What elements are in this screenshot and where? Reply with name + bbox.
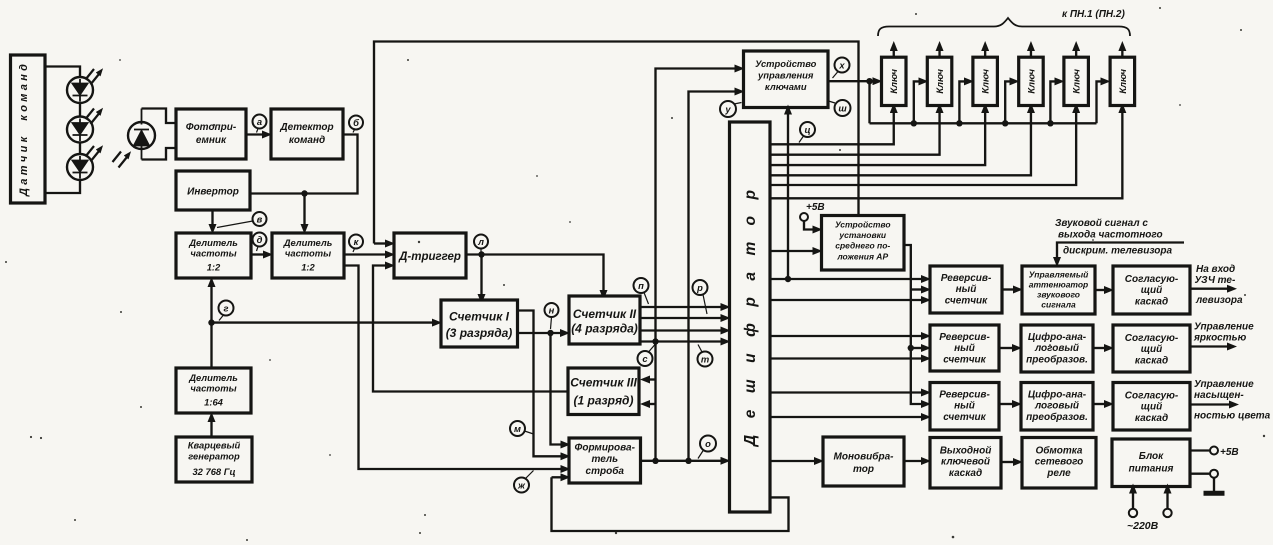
junction dot n — [547, 330, 553, 336]
wire AR column stub to counter2 middle — [911, 347, 922, 349]
wire m: counter I second output to strobe former input2 — [518, 311, 562, 457]
svg-text:преобразов.: преобразов. — [1026, 354, 1088, 366]
block Реверсивный счетчик 1 — [930, 266, 1002, 313]
svg-text:Формирова-: Формирова- — [575, 443, 636, 454]
wire output to TV audio input — [1190, 288, 1228, 290]
svg-text:Устройство: Устройство — [755, 58, 817, 69]
key 2 — [927, 57, 952, 105]
wire b: detector output to inverter and divider2 — [250, 135, 358, 194]
block Цифро-аналоговый преобразователь 1 — [1021, 325, 1093, 372]
photodiode VD4 — [128, 109, 155, 160]
svg-text:с: с — [642, 353, 648, 364]
svg-text:ный: ный — [954, 343, 975, 354]
svg-text:Ключ: Ключ — [934, 69, 945, 94]
svg-text:о: о — [705, 438, 711, 449]
wire arrow into D-trigger input1 — [374, 242, 386, 244]
svg-text:р: р — [696, 282, 703, 293]
block Делитель частоты 1:2 second — [272, 233, 344, 278]
node o — [698, 436, 716, 459]
key 5 — [1064, 57, 1089, 105]
wire counter II output 2 to decoder — [640, 317, 722, 319]
block Управляемый аттенюатор звукового сигнала — [1022, 266, 1095, 314]
terminal mains 1 — [1129, 509, 1137, 517]
svg-text:тель: тель — [591, 454, 618, 465]
block Устройство установки среднего положения АР — [822, 216, 905, 271]
svg-text:Счетчик I: Счетчик I — [449, 310, 510, 324]
svg-text:Счетчик II: Счетчик II — [573, 307, 637, 321]
svg-text:каскад: каскад — [1135, 297, 1168, 308]
svg-text:Делитель: Делитель — [188, 372, 238, 383]
terminal mains 2 — [1163, 509, 1171, 517]
wire counterIII feedback to D-trigger input3 — [373, 266, 568, 392]
wire counter3 to DAC2 — [999, 403, 1013, 405]
wire v: inverter to divider1 top — [211, 210, 213, 225]
wire Va branch to counter III lower input — [649, 403, 656, 405]
svg-text:каскад: каскад — [1135, 413, 1168, 424]
svg-text:(3 разряда): (3 разряда) — [446, 326, 513, 340]
node b — [349, 116, 363, 133]
wire l branch down to counter I top — [480, 255, 482, 296]
wire k: divider2 to D-trigger — [344, 253, 386, 255]
svg-text:в: в — [257, 214, 263, 225]
svg-text:щий: щий — [1141, 402, 1163, 413]
svg-text:Управление: Управление — [1194, 322, 1254, 333]
wire counter I to counter II — [518, 332, 562, 334]
brace over keys — [878, 18, 1130, 36]
light rays from LED VD1 — [86, 69, 100, 85]
svg-text:Инвертор: Инвертор — [187, 187, 239, 198]
node a — [253, 115, 267, 133]
svg-text:ц: ц — [804, 124, 810, 135]
svg-text:УЗЧ те-: УЗЧ те- — [1195, 275, 1236, 286]
node d — [253, 233, 267, 252]
wire AR column stub to counter1 middle — [911, 288, 922, 290]
wire l: D-trigger output to counters I and II — [466, 255, 604, 292]
light rays into photodiode — [113, 152, 128, 168]
svg-text:Счетчик III: Счетчик III — [570, 376, 637, 390]
block Устройство управления ключами — [744, 51, 829, 108]
block Согласующий каскад 2 — [1113, 325, 1190, 372]
ground — [1204, 478, 1225, 494]
block Блок питания — [1112, 439, 1190, 487]
svg-text:левизора: левизора — [1195, 295, 1243, 306]
svg-text:Ключ: Ключ — [980, 69, 991, 94]
svg-text:~220В: ~220В — [1127, 520, 1159, 532]
wire arrow strobe former input4 — [552, 476, 562, 478]
wire DAC1 to matching stage 2 — [1093, 347, 1105, 349]
svg-text:Устройство: Устройство — [835, 220, 891, 230]
label Звуковой сигнал с выхода частотного дискрим. телевизора — [1055, 218, 1173, 257]
wire zh: divider2 lower output to strobe former — [344, 266, 562, 470]
svg-text:среднего по-: среднего по- — [835, 241, 890, 251]
node u — [720, 101, 742, 117]
svg-text:д: д — [257, 234, 263, 245]
svg-text:звукового: звукового — [1037, 290, 1080, 300]
terminal +5V — [1210, 447, 1218, 455]
svg-text:Управляемый: Управляемый — [1029, 270, 1089, 280]
svg-text:емник: емник — [196, 135, 227, 146]
block Формирователь строба — [569, 438, 641, 483]
wire o: strobe former output to decoder — [641, 460, 722, 462]
block Делитель частоты 1:64 — [176, 368, 251, 413]
wire a: photoreceiver to detector — [246, 133, 263, 135]
svg-text:каскад: каскад — [1135, 356, 1168, 367]
node s — [638, 345, 656, 367]
svg-text:Согласую-: Согласую- — [1125, 333, 1179, 344]
junction dot on l wire — [478, 251, 484, 257]
wire divider chain: quartz gen to divider 1:64 — [210, 421, 212, 437]
node n — [545, 303, 559, 329]
block Выходной ключевой каскад — [930, 438, 1001, 489]
svg-text:выхода частотного: выхода частотного — [1058, 230, 1163, 241]
light rays from LED VD3 — [86, 146, 100, 162]
block Дешифратор — [730, 122, 771, 512]
wire DAC2 to matching stage 3 — [1093, 403, 1105, 405]
sensor box Датчик команд — [11, 55, 46, 203]
wire mains input 2 — [1166, 493, 1168, 509]
wire output brightness control — [1190, 345, 1228, 347]
junction dot on decoder counter line 1 — [785, 276, 791, 282]
wire b to divider2 top — [303, 194, 305, 226]
wire n branch down to strobe former input1 — [551, 333, 562, 445]
svg-text:Детектор: Детектор — [279, 122, 333, 133]
junction dot AR column — [908, 345, 914, 351]
svg-text:ш: ш — [838, 103, 847, 114]
node r — [693, 280, 708, 314]
wire decoder to monovibrator — [770, 460, 815, 462]
node v — [217, 212, 267, 228]
svg-text:Ключ: Ключ — [1025, 69, 1036, 94]
wire decoder to counter2 up input — [770, 335, 922, 337]
wire sensor to LED chain top — [45, 67, 80, 79]
terminal ground — [1210, 470, 1218, 478]
svg-text:тор: тор — [853, 464, 874, 475]
wire decoder line to keys control unit bottom — [787, 114, 789, 280]
block Д-триггер — [394, 233, 466, 278]
svg-text:установки: установки — [838, 230, 887, 240]
block Моновибратор — [823, 437, 904, 486]
svg-text:генератор: генератор — [188, 451, 240, 462]
svg-text:яркостью: яркостью — [1193, 333, 1247, 344]
node t — [698, 345, 713, 367]
svg-text:у: у — [724, 104, 731, 115]
node l — [474, 235, 488, 252]
svg-text:Выходной: Выходной — [940, 446, 992, 457]
svg-text:Блок: Блок — [1139, 451, 1164, 462]
block Согласующий каскад 1 — [1113, 266, 1190, 314]
junction dot on x wire — [866, 78, 872, 84]
wire Va: vertical from strobe output line up to keys control unit input1 — [656, 69, 736, 461]
terminal +5V AR — [800, 213, 808, 221]
svg-text:аттенюатор: аттенюатор — [1029, 280, 1089, 290]
svg-text:ключевой: ключевой — [941, 457, 990, 468]
svg-text:ложения АР: ложения АР — [836, 252, 888, 262]
wire +5V to AR device — [804, 221, 814, 230]
svg-text:Согласую-: Согласую- — [1125, 391, 1179, 402]
svg-text:+5В: +5В — [1220, 447, 1239, 458]
key 2 top arrow — [938, 50, 940, 57]
wire sensor to LED chain bottom — [45, 180, 80, 193]
junction dot on b wire — [301, 190, 307, 196]
svg-text:Цифро-ана-: Цифро-ана- — [1028, 389, 1087, 401]
key 1 — [882, 57, 907, 105]
block Реверсивный счетчик 2 — [930, 325, 999, 371]
svg-text:питания: питания — [1129, 464, 1174, 475]
label Управление яркостью — [1193, 322, 1254, 344]
wire Vb: vertical from strobe output line up to keys control unit input2 — [689, 92, 736, 461]
node k — [349, 235, 363, 253]
svg-text:+5В: +5В — [806, 202, 825, 213]
svg-text:строба: строба — [586, 465, 625, 477]
wire decoder to key6 bottom — [770, 112, 1122, 198]
svg-text:л: л — [477, 236, 484, 247]
svg-text:ный: ный — [954, 401, 975, 412]
svg-text:м: м — [514, 423, 521, 434]
node zh — [514, 471, 534, 493]
wire decoder to key1 bottom — [770, 112, 894, 144]
wire counter2 to DAC1 — [999, 347, 1013, 349]
block Счетчик I — [441, 300, 518, 347]
wire decoder to counter2 down input — [770, 357, 922, 359]
wire decoder to key2 bottom — [770, 112, 940, 155]
svg-text:Звуковой сигнал с: Звуковой сигнал с — [1055, 218, 1148, 229]
wire bus riser to key2 — [914, 81, 920, 123]
wire decoder to key5 bottom — [770, 112, 1076, 185]
svg-text:сигнала: сигнала — [1041, 300, 1076, 310]
wire x: keys control unit output to key1 — [828, 80, 874, 82]
wire g: to counter I — [212, 321, 434, 323]
label На вход УЗЧ телевизора — [1195, 264, 1243, 306]
block Согласующий каскад 3 — [1113, 383, 1190, 431]
wire decoder to key4 bottom — [770, 112, 1031, 175]
svg-text:частоты: частоты — [190, 248, 236, 259]
svg-text:ж: ж — [517, 480, 526, 491]
svg-text:Делитель: Делитель — [283, 237, 333, 248]
svg-text:команд: команд — [289, 135, 325, 146]
svg-text:Ключ: Ключ — [1071, 69, 1082, 94]
svg-text:Реверсив-: Реверсив- — [939, 332, 990, 343]
wire top feedback: to D-trigger input1 and AR-device top — [374, 42, 859, 244]
svg-text:логовый: логовый — [1034, 343, 1079, 354]
svg-text:Кварцевый: Кварцевый — [188, 440, 241, 451]
svg-text:Д-триггер: Д-триггер — [398, 251, 461, 263]
wire bottom loop: to strobe former input4 and decoder bottom — [552, 477, 789, 531]
svg-text:Реверсив-: Реверсив- — [939, 390, 990, 401]
block Кварцевый генератор — [176, 437, 252, 482]
svg-text:частоты: частоты — [285, 248, 331, 259]
svg-text:реле: реле — [1046, 468, 1071, 479]
svg-text:х: х — [838, 60, 845, 71]
wire counter II output 4 to decoder — [640, 340, 722, 342]
wire divider1 to divider2 — [251, 253, 264, 255]
svg-text:Ключ: Ключ — [888, 69, 899, 94]
wire divider chain: 1:64 to divider1 — [210, 286, 212, 368]
wire output saturation control — [1190, 403, 1230, 405]
key 4 top arrow — [1030, 50, 1032, 57]
node m — [510, 421, 534, 436]
wire decoder to counter1 up input — [770, 278, 922, 280]
svg-text:1:64: 1:64 — [204, 397, 224, 408]
svg-text:щий: щий — [1141, 344, 1163, 355]
wire bus riser to key4 — [1005, 81, 1010, 123]
svg-text:(1 разряд): (1 разряд) — [574, 394, 634, 408]
svg-text:логовый: логовый — [1034, 401, 1079, 412]
key 3 top arrow — [984, 50, 986, 57]
node ts — [799, 122, 815, 143]
svg-text:32 768 Гц: 32 768 Гц — [192, 466, 235, 477]
svg-text:ностью цвета: ностью цвета — [1194, 411, 1271, 422]
node g — [219, 301, 234, 321]
svg-text:к ПН.1 (ПН.2): к ПН.1 (ПН.2) — [1062, 9, 1125, 20]
svg-text:Согласую-: Согласую- — [1125, 274, 1179, 285]
block Детектор команд — [271, 109, 343, 159]
svg-text:На вход: На вход — [1196, 264, 1235, 275]
light rays from LED VD2 — [86, 109, 100, 125]
svg-text:счетчик: счетчик — [943, 355, 986, 366]
wire decoder to key3 bottom — [770, 112, 985, 165]
wire key bus — [870, 122, 1097, 124]
key 1 top arrow — [893, 50, 895, 57]
block Делитель частоты 1:2 first — [176, 233, 251, 278]
svg-text:Обмотка: Обмотка — [1036, 445, 1083, 457]
svg-text:ключами: ключами — [765, 81, 807, 92]
svg-text:т: т — [701, 354, 709, 365]
svg-text:насыщен-: насыщен- — [1194, 390, 1244, 401]
svg-text:ный: ный — [956, 284, 977, 295]
node sh — [829, 100, 851, 116]
svg-text:г: г — [223, 303, 228, 314]
key 3 — [973, 57, 998, 105]
block Инвертор — [176, 171, 250, 210]
block Обмотка сетевого реле — [1022, 438, 1096, 489]
svg-text:счетчик: счетчик — [943, 412, 986, 423]
LED VD3 — [67, 154, 93, 180]
svg-text:сетевого: сетевого — [1035, 457, 1084, 468]
key 6 — [1110, 57, 1135, 105]
photodiode bracket — [142, 109, 177, 160]
wire LED chain — [79, 78, 81, 180]
svg-text:Управление: Управление — [1194, 379, 1254, 390]
svg-text:частоты: частоты — [190, 383, 236, 394]
wire audio signal into attenuator top — [1057, 243, 1184, 259]
node x — [833, 58, 850, 79]
key 4 — [1019, 57, 1043, 105]
svg-text:Реверсив-: Реверсив- — [941, 273, 992, 284]
wire AR device output down the counter column — [904, 245, 922, 404]
svg-text:Цифро-ана-: Цифро-ана- — [1028, 331, 1087, 343]
wire decoder to counter3 up input — [770, 391, 922, 393]
junction dot Vb on strobe output line — [685, 458, 691, 464]
wire ground output — [1190, 473, 1210, 475]
key 6 top arrow — [1121, 50, 1123, 57]
LED VD1 — [67, 77, 93, 103]
wire output key stage to relay winding — [1001, 461, 1014, 463]
svg-text:(4 разряда): (4 разряда) — [571, 322, 638, 336]
junction dot Va on counter II output 4 — [652, 338, 658, 344]
block Цифро-аналоговый преобразователь 2 — [1021, 383, 1093, 431]
svg-text:Ключ: Ключ — [1117, 69, 1128, 94]
svg-text:Делитель: Делитель — [188, 237, 238, 248]
wire decoder to counter3 down input — [770, 416, 922, 418]
svg-text:щий: щий — [1141, 285, 1163, 296]
svg-text:преобразов.: преобразов. — [1026, 411, 1088, 423]
node p — [634, 278, 649, 304]
svg-text:н: н — [549, 305, 555, 316]
wire decoder to counter1 down input — [770, 299, 922, 301]
svg-text:1:2: 1:2 — [301, 262, 315, 273]
wire attenuator to matching stage 1 — [1095, 289, 1105, 291]
junction dot Va on strobe output line — [652, 458, 658, 464]
svg-text:каскад: каскад — [949, 468, 982, 479]
svg-text:управления: управления — [757, 70, 814, 81]
wire bus riser to key5 — [1050, 81, 1055, 123]
key 5 top arrow — [1075, 50, 1077, 57]
block Фотоприемник — [176, 109, 246, 159]
block Счетчик II — [569, 296, 640, 344]
label Управление насыщенностью цвета — [1194, 379, 1271, 422]
svg-text:счетчик: счетчик — [945, 296, 988, 307]
junction dot g — [208, 319, 214, 325]
wire bus riser to key6 — [1097, 81, 1102, 123]
block Счетчик III — [568, 368, 639, 415]
block Реверсивный счетчик 3 — [930, 383, 999, 431]
svg-text:дискрим. телевизора: дискрим. телевизора — [1063, 246, 1173, 257]
wire Va branch to counter III upper input — [649, 378, 656, 380]
wire decoder to AR device — [770, 250, 814, 252]
wire mains input 1 — [1132, 493, 1134, 509]
wire monovibrator to output key stage — [904, 460, 922, 462]
svg-text:п: п — [638, 280, 644, 291]
wire counter1 to attenuator — [1002, 288, 1014, 290]
svg-text:Фотопри-: Фотопри- — [186, 122, 237, 133]
wire +5V output — [1190, 449, 1210, 451]
wire bus riser to key3 — [959, 81, 965, 123]
svg-text:1:2: 1:2 — [207, 262, 221, 273]
svg-text:Моновибра-: Моновибра- — [834, 451, 895, 463]
wire counter II output 1 to decoder — [640, 306, 722, 308]
wire counter II output 3 to decoder — [640, 329, 722, 331]
svg-text:а: а — [257, 116, 262, 127]
wire key bus riser — [868, 81, 870, 123]
LED VD2 — [67, 117, 93, 143]
